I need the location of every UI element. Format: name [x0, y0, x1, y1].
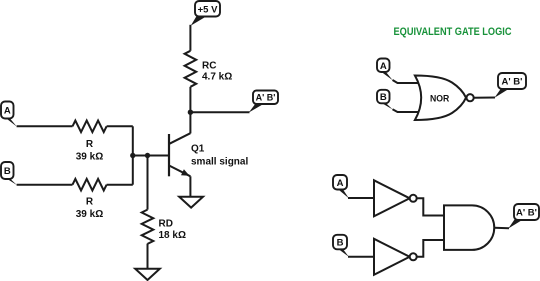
- svg-text:EQUIVALENT GATE LOGIC: EQUIVALENT GATE LOGIC: [394, 26, 512, 38]
- svg-text:RD: RD: [159, 218, 173, 229]
- node: collector junction dot: [188, 110, 193, 115]
- NOR gate U1: [415, 76, 474, 121]
- svg-text:39 kΩ: 39 kΩ: [76, 152, 103, 163]
- node: junction dot RD tap: [145, 153, 150, 158]
- wire inverter 2 output to AND input 2: [417, 240, 444, 257]
- ground (emitter): [179, 197, 203, 208]
- inverter U3 (NOT gate on B): [374, 239, 417, 275]
- svg-text:A: A: [4, 106, 11, 117]
- wire inverter 1 output to AND input 1: [417, 198, 444, 215]
- input flag A (inverter circuit): [333, 175, 349, 198]
- wire A to inverter 1: [348, 197, 374, 199]
- power flag +5V: [191, 1, 220, 26]
- wire NOR output to flag: [474, 97, 495, 99]
- AND gate U4: [444, 205, 494, 250]
- svg-text:18 kΩ: 18 kΩ: [159, 230, 186, 241]
- svg-text:B: B: [337, 238, 344, 249]
- input flag A (left circuit): [1, 102, 17, 127]
- wire emitter to ground: [189, 176, 191, 196]
- svg-text:B: B: [4, 166, 11, 177]
- svg-text:39 kΩ: 39 kΩ: [76, 209, 103, 220]
- wire +5V to RC top: [189, 25, 191, 51]
- wire B to inverter 2: [348, 256, 374, 258]
- input flag A (NOR gate): [377, 59, 393, 81]
- svg-text:A' B': A' B': [256, 93, 276, 103]
- input flag B (left circuit): [1, 162, 17, 185]
- resistor R (input A): [73, 121, 107, 133]
- resistor RD: [142, 210, 154, 244]
- resistor RC: [185, 51, 197, 87]
- svg-text:A: A: [337, 178, 344, 189]
- transistor Q1: [169, 133, 190, 176]
- wire R top to junction: [107, 125, 133, 127]
- inverter U2 (NOT gate on A): [374, 180, 417, 216]
- wire junction to transistor base: [133, 155, 169, 157]
- wire junction vertical (ties both resistors): [132, 126, 134, 184]
- resistor R (input B): [73, 179, 107, 191]
- svg-text:A: A: [380, 61, 387, 72]
- node: junction dot left: [130, 153, 135, 158]
- wire RD bottom to ground: [147, 244, 149, 269]
- svg-text:RC: RC: [202, 61, 216, 72]
- wire AND output to flag: [494, 227, 509, 229]
- wire B to resistor R bottom: [17, 184, 73, 186]
- output flag A'B' (NOR): [495, 73, 527, 98]
- input flag B (NOR gate): [377, 90, 393, 110]
- svg-text:R: R: [86, 196, 94, 207]
- wire B to NOR input: [393, 109, 421, 112]
- output flag A'B' (AND): [508, 204, 539, 229]
- wire A to NOR input: [393, 80, 421, 83]
- wire RC bottom to collector node: [189, 87, 191, 112]
- wire A to resistor R top: [17, 125, 73, 127]
- svg-text:R: R: [86, 139, 94, 150]
- wire R bottom to junction: [107, 184, 133, 186]
- output flag A'B' (left circuit): [249, 91, 278, 113]
- svg-text:A' B': A' B': [502, 77, 523, 88]
- svg-text:+5 V: +5 V: [198, 4, 218, 15]
- svg-text:B: B: [380, 92, 387, 103]
- wire node to transistor collector: [189, 112, 191, 133]
- svg-text:A' B': A' B': [516, 208, 537, 219]
- input flag B (inverter circuit): [333, 235, 349, 257]
- svg-text:Q1: Q1: [191, 144, 205, 155]
- svg-text:4.7 kΩ: 4.7 kΩ: [202, 72, 232, 83]
- ground (below RD): [135, 269, 160, 280]
- wire RD tap down to RD: [147, 156, 149, 210]
- svg-text:small signal: small signal: [191, 157, 248, 168]
- wire collector node to output flag: [190, 111, 249, 113]
- svg-text:NOR: NOR: [430, 93, 450, 103]
